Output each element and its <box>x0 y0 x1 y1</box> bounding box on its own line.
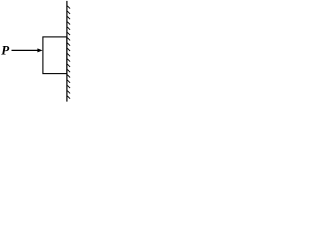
force arrowhead <box>37 48 42 52</box>
block <box>43 37 67 74</box>
wall <box>66 1 68 102</box>
svg-text:P: P <box>1 42 10 57</box>
force arrow P wire <box>12 49 39 51</box>
wall hatching <box>67 6 70 99</box>
